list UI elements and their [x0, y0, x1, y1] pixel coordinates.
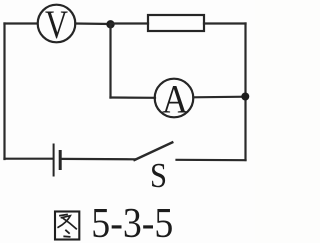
- switch S blade: [135, 142, 173, 160]
- wire switch to bottom-right corner: [177, 159, 246, 162]
- wire node A to resistor: [111, 22, 149, 24]
- wire left vertical: [3, 24, 5, 160]
- svg-text:V: V: [45, 2, 68, 47]
- wire battery to switch: [62, 158, 136, 161]
- wire resistor to top-right corner: [204, 22, 246, 24]
- resistor: [148, 15, 204, 31]
- ammeter: [155, 77, 194, 122]
- wire node A down to ammeter row: [109, 24, 111, 98]
- wire bottom-left to battery: [5, 158, 53, 160]
- battery: [54, 145, 61, 176]
- wire top-left to voltmeter: [5, 22, 38, 24]
- node A junction dot: [106, 20, 114, 28]
- wire voltmeter to node A: [75, 22, 110, 25]
- svg-text:S: S: [150, 156, 167, 195]
- svg-text:5-3-5: 5-3-5: [91, 201, 173, 243]
- voltmeter: [38, 2, 76, 47]
- svg-text:A: A: [162, 77, 188, 122]
- wire to ammeter: [111, 96, 156, 99]
- wire right vertical: [244, 24, 246, 161]
- caption character 图: [55, 212, 79, 240]
- node B junction dot: [241, 93, 249, 101]
- caption text 5-3-5: [91, 201, 173, 243]
- wire ammeter to node B: [193, 96, 245, 99]
- label S: [150, 156, 167, 195]
